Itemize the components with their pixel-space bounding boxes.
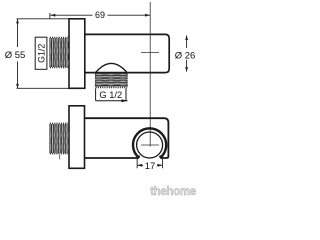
- svg-text:Ø 26: Ø 26: [175, 50, 196, 61]
- svg-text:Ø 55: Ø 55: [5, 50, 26, 61]
- svg-text:G1/2: G1/2: [36, 44, 46, 63]
- svg-text:thehome: thehome: [150, 186, 196, 198]
- svg-text:17: 17: [145, 161, 156, 172]
- svg-text:69: 69: [95, 10, 105, 20]
- svg-text:G 1/2: G 1/2: [99, 90, 122, 100]
